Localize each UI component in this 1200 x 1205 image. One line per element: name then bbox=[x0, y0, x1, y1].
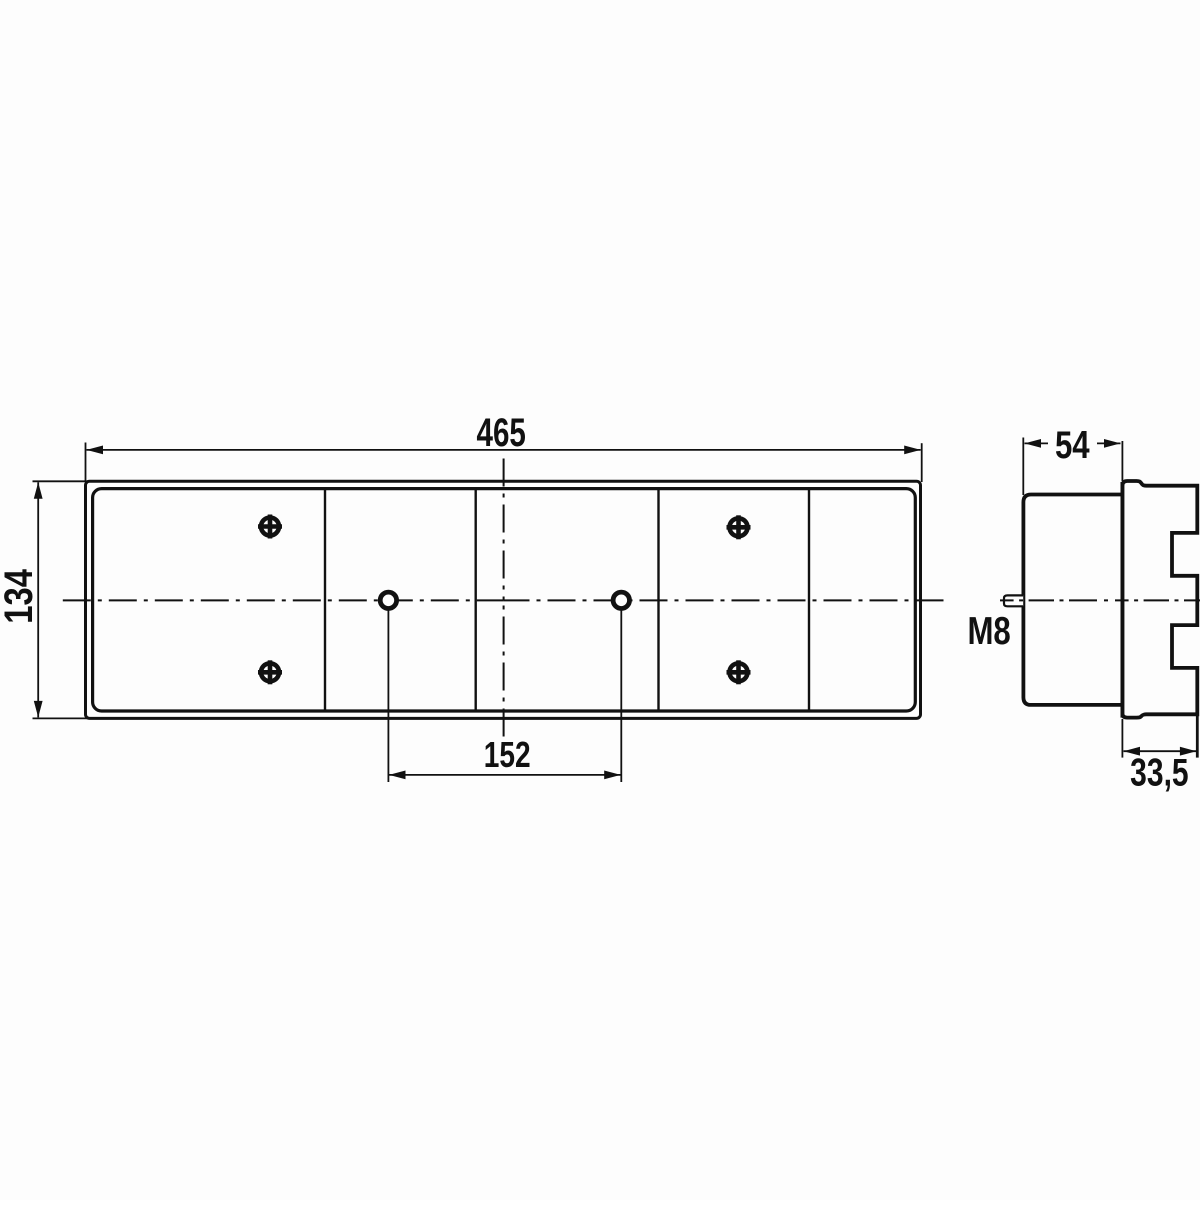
svg-text:54: 54 bbox=[1055, 424, 1090, 467]
dimension 54: left extension line bbox=[1022, 438, 1024, 496]
dimension 54: right arrow with tail bbox=[1097, 442, 1121, 444]
dimension 134: top arrow bbox=[34, 482, 43, 499]
lens divider 3 bbox=[657, 489, 659, 711]
front view: outer housing rectangle bbox=[86, 481, 921, 718]
side view: lamp body (housing) bbox=[1023, 495, 1122, 705]
dimension 33,5: right extension line bbox=[1196, 716, 1199, 758]
lens divider 4 bbox=[808, 489, 810, 711]
dimension 465: dimension line bbox=[87, 449, 921, 451]
svg-text:152: 152 bbox=[484, 734, 531, 774]
screw symbol bottom-right bbox=[727, 660, 751, 684]
side view: lens with castellated edge bbox=[1122, 481, 1197, 718]
dimension 134: top extension line bbox=[33, 480, 89, 482]
dimension 465: left extension line bbox=[85, 443, 87, 482]
svg-text:M8: M8 bbox=[967, 610, 1010, 653]
screw symbol top-left bbox=[258, 515, 282, 539]
dimension 134: bottom extension line bbox=[33, 717, 89, 719]
horizontal centerline (front view) right half bbox=[504, 599, 944, 601]
dimension 33,5: dimension line bbox=[1124, 750, 1197, 752]
mounting hole 2 bbox=[613, 592, 629, 608]
dimension 465: right arrow bbox=[904, 446, 921, 455]
dimension 152: left arrow bbox=[389, 771, 406, 780]
side view centerline bbox=[1000, 599, 1200, 601]
dimension 33,5: right arrow bbox=[1180, 747, 1197, 756]
dimension 54: right extension line bbox=[1121, 441, 1123, 481]
dimension 152: right arrow bbox=[604, 771, 621, 780]
dimension 33,5: left arrow bbox=[1124, 747, 1141, 756]
vertical centerline (front view) upper half bbox=[503, 459, 505, 601]
side view: lens/body boundary line bbox=[1121, 482, 1125, 718]
extension line from hole 1 down to 152 dimension bbox=[387, 602, 389, 782]
dimension 134: bottom arrow bbox=[34, 701, 43, 718]
vertical centerline (front view) lower half bbox=[503, 600, 505, 736]
dimension 33,5: left extension line bbox=[1121, 719, 1123, 758]
dimension 465: right extension line bbox=[921, 443, 923, 482]
dimension 152: dimension line bbox=[389, 774, 621, 776]
svg-text:465: 465 bbox=[477, 411, 526, 455]
lens divider 2 bbox=[475, 489, 477, 711]
side view: M8 mounting stud bbox=[1004, 595, 1023, 606]
svg-text:134: 134 bbox=[0, 568, 41, 623]
front view: inner lens frame (rounded) bbox=[93, 489, 916, 711]
horizontal centerline (front view) left half bbox=[63, 599, 504, 601]
dimension 54: left arrow with tail bbox=[1025, 442, 1049, 444]
svg-text:33,5: 33,5 bbox=[1130, 752, 1188, 794]
screw symbol top-right bbox=[727, 515, 751, 539]
mounting hole 1 bbox=[380, 592, 396, 608]
extension line from hole 2 down to 152 dimension bbox=[620, 602, 622, 782]
dimension 134: dimension line bbox=[37, 482, 39, 717]
dimension 465: left arrow bbox=[87, 446, 104, 455]
lens divider 1 bbox=[324, 489, 326, 711]
screw symbol bottom-left bbox=[258, 660, 282, 684]
